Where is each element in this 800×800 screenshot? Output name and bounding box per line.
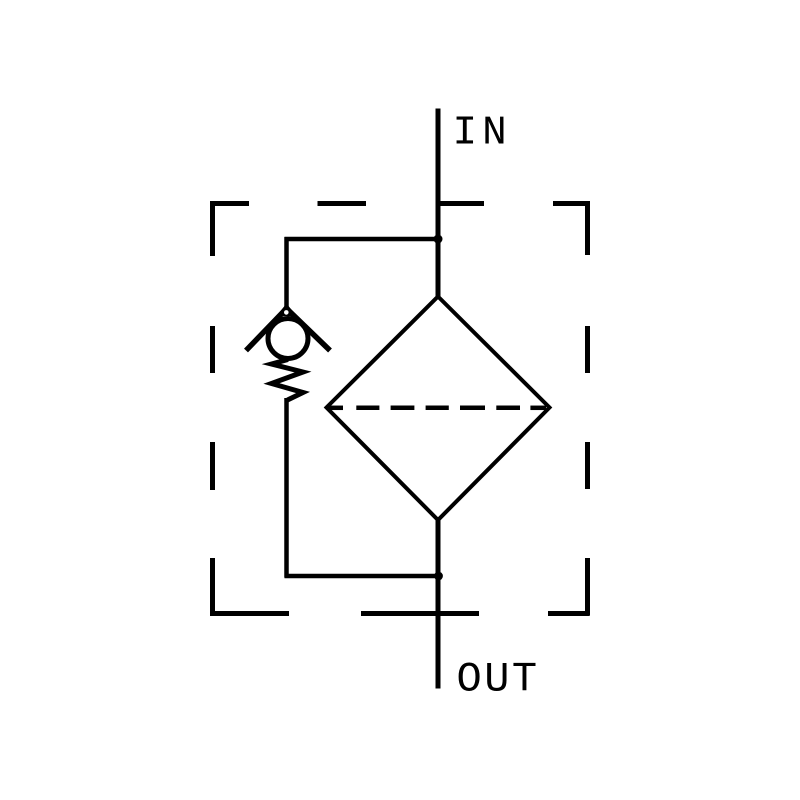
node B (bottom junction dot): [434, 572, 443, 581]
wire bypass branch lower vertical: [284, 398, 289, 578]
svg-text:OUT: OUT: [457, 656, 540, 704]
wire OUT (outlet line, bottom): [436, 517, 441, 689]
node A (top junction dot): [434, 235, 443, 244]
check valve V1 seat (vee): [246, 304, 330, 351]
enclosure dashed boundary, bottom edge: [210, 611, 590, 616]
filter F1 (diamond outline): [327, 297, 550, 521]
wire IN (inlet line, top): [436, 109, 441, 300]
check valve V1 spring: [272, 360, 304, 401]
label OUT: [457, 656, 540, 704]
wire bypass branch upper vertical: [284, 237, 289, 313]
enclosure dashed boundary, right edge: [585, 201, 590, 616]
enclosure dashed boundary, top edge: [210, 201, 590, 206]
wire bottom branch horizontal (bypass branch to junction): [285, 574, 441, 579]
check valve V1 ball: [268, 319, 308, 359]
label IN: [453, 111, 512, 157]
enclosure dashed boundary, left edge: [210, 201, 215, 616]
filter F1 element (dashed diagonal line): [328, 406, 547, 411]
wire top branch horizontal (junction to bypass branch): [285, 237, 441, 242]
svg-text:IN: IN: [453, 111, 512, 157]
